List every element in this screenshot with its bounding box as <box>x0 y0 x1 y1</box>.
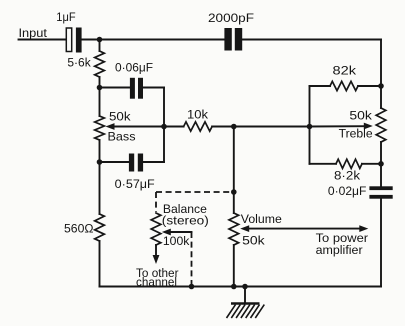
potentiometer VR2 50k Treble (right rail) <box>380 40 382 109</box>
wiper of VR1 (arrow to bass pot) <box>113 126 164 128</box>
wire (dashed): balance wiper down to ground rail <box>191 232 193 287</box>
svg-text:amplifier: amplifier <box>316 243 363 257</box>
resistor R2 560 ohm <box>99 162 101 214</box>
wire: node E down to balance tap <box>233 127 235 214</box>
wire (dashed): balance tap horizontal <box>156 191 234 193</box>
node K junction dot (volume bottom) <box>231 284 237 290</box>
wire: bottom ground rail <box>100 286 382 288</box>
node A junction dot (input/5.6k/top feed) <box>97 37 103 43</box>
potentiometer VR4 100k Balance (stereo) <box>151 213 161 245</box>
svg-text:5·6k: 5·6k <box>67 56 91 70</box>
ground symbol <box>227 287 265 319</box>
svg-text:100k: 100k <box>163 234 190 248</box>
svg-text:0·02μF: 0·02μF <box>328 184 367 198</box>
wiper of VR3 + signal out arrow (to power amplifier) <box>248 228 362 230</box>
potentiometer VR1 50k Bass <box>99 88 101 117</box>
svg-text:Treble: Treble <box>339 127 373 141</box>
svg-text:Volume: Volume <box>241 212 282 226</box>
resistor R5 8.2k <box>310 163 337 165</box>
capacitor C4 0.57uF <box>100 154 165 192</box>
wire: C2 to top-right corner <box>242 39 381 41</box>
svg-text:0·57μF: 0·57μF <box>115 177 155 191</box>
node G junction dot (82k / right rail) <box>378 83 384 89</box>
node J junction dot (balance return on ground rail) <box>189 284 195 290</box>
node I junction dot (balance dashed tap) <box>231 189 237 195</box>
wire: cap-bridge vertical (0.06uF to 0.57uF right plates) <box>163 88 165 163</box>
arrow: to other channel <box>155 245 157 256</box>
resistor R3 10k <box>164 126 184 128</box>
svg-text:50k: 50k <box>349 109 372 123</box>
svg-text:8·2k: 8·2k <box>334 169 361 183</box>
wire (dashed): balance left drop <box>155 192 157 212</box>
node B junction dot (5.6k / 0.06uF / bass top) <box>97 85 103 91</box>
wire: right rail below C5 to bottom-right corner <box>380 199 382 287</box>
node C junction dot (bass branch lower) <box>97 159 103 165</box>
node E junction dot (10k / volume line) <box>231 124 237 130</box>
node H junction dot (8.2k / right rail) <box>378 161 384 167</box>
svg-text:(stereo): (stereo) <box>162 214 209 228</box>
svg-text:560Ω: 560Ω <box>64 222 94 236</box>
wire: treble left branch vertical <box>309 86 311 164</box>
wire: input lead to C1 <box>19 39 67 41</box>
svg-text:50k: 50k <box>109 110 131 124</box>
wire: 10k to volume tap node <box>212 126 234 128</box>
resistor R4 82k <box>310 85 331 87</box>
node D junction dot (bass wiper / bridge / 10k) <box>161 124 167 130</box>
svg-text:1μF: 1μF <box>56 10 76 24</box>
svg-text:82k: 82k <box>333 64 358 78</box>
svg-text:Bass: Bass <box>108 130 136 144</box>
capacitor C1 1uF (electrolytic) <box>56 10 81 53</box>
capacitor C5 0.02uF <box>328 184 393 199</box>
svg-text:Input: Input <box>19 26 48 40</box>
node F junction dot (treble branch) <box>307 124 313 130</box>
svg-text:2000pF: 2000pF <box>208 11 255 25</box>
wiper of VR4 (arrow into balance pot) <box>169 231 192 233</box>
node L junction dot (ground stem) <box>242 284 248 290</box>
svg-text:50k: 50k <box>242 234 265 248</box>
wiper of VR2 treble (arrow) <box>310 125 365 127</box>
svg-text:0·06μF: 0·06μF <box>115 61 153 75</box>
svg-text:10k: 10k <box>187 108 209 122</box>
wire: node E to node F <box>234 126 310 128</box>
capacitor C2 2000pF <box>208 11 255 51</box>
wire: C1 to node A (top junction) <box>82 39 225 41</box>
capacitor C3 0.06uF <box>100 61 165 99</box>
potentiometer VR3 50k Volume <box>229 213 239 245</box>
resistor R1 5.6k <box>99 40 101 52</box>
